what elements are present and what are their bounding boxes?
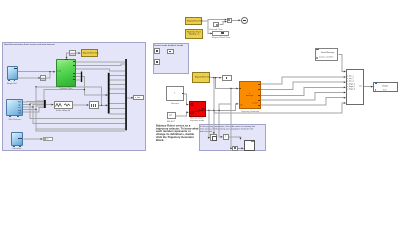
demux bar bbox=[108, 73, 110, 114]
block: yellow annotation elapsed real time top bbox=[185, 17, 202, 26]
wire branch down a bbox=[30, 105, 125, 119]
block: bottom B bbox=[223, 134, 229, 140]
wire demux to mux t8 bbox=[110, 113, 125, 115]
wire yellow3 branch down to bottom panel bbox=[213, 78, 215, 135]
block: sensor subsystem box bbox=[166, 86, 184, 101]
block: chatter scope bbox=[373, 82, 398, 93]
wire demux to mux t1 bbox=[110, 74, 125, 76]
block: bottom A bbox=[210, 134, 217, 141]
wire sum to scope circle bbox=[232, 19, 241, 21]
block: send message bbox=[315, 48, 338, 61]
wire trajectory out2 bbox=[261, 82, 346, 89]
block: cyan source 1 bbox=[7, 66, 18, 80]
block: cyan source 2 bbox=[6, 99, 23, 116]
wire demux to mux t6 bbox=[110, 103, 125, 105]
wire tf mux to filter bbox=[46, 104, 54, 106]
block: cyan source 3 bbox=[11, 132, 23, 145]
wire sensor box to switch bbox=[184, 94, 189, 105]
block: yellow elapsed real time (mid) bbox=[192, 72, 211, 83]
wire cyan1 to rate block bbox=[18, 77, 41, 79]
label: bottom panel note text bbox=[200, 125, 255, 133]
wire cyan2 out4 to tf mux bbox=[23, 106, 44, 110]
wire trajectory out4 bbox=[261, 93, 346, 101]
label: left panel title bbox=[4, 43, 55, 46]
arrowheads bbox=[53, 71, 55, 73]
wire drop to block C bbox=[231, 89, 232, 149]
wire big mux out to x_hat tag bbox=[127, 97, 133, 99]
block: display elapsed real time bbox=[212, 31, 229, 35]
block: scope circle bbox=[241, 17, 248, 24]
wire yellow3 to tag1 bbox=[211, 77, 222, 79]
block: x_hat tag bbox=[133, 95, 144, 101]
panel: bottom trajectory note area bbox=[199, 124, 266, 151]
wire clock small to sum bbox=[219, 22, 226, 25]
wire trajectory out1 bbox=[261, 77, 346, 84]
wire green out5 to small mux bbox=[76, 79, 81, 81]
wire discrete block to demux bar bbox=[99, 104, 108, 106]
small mux near green bbox=[81, 72, 82, 83]
block: manual switch red bbox=[189, 101, 206, 117]
label: middle panel title bbox=[154, 44, 183, 47]
wire yellow1 to branch bbox=[202, 20, 227, 21]
block: discrete filter bbox=[54, 101, 74, 109]
block: rate transition small bbox=[40, 75, 45, 81]
panel: position mode feedback handle area bbox=[153, 43, 189, 74]
wire green out1 to big mux bbox=[76, 61, 126, 63]
wires svg layer bbox=[0, 0, 400, 167]
wire trajectory out5 bbox=[261, 98, 346, 105]
block: green kalman subsystem bbox=[56, 59, 76, 87]
block: bottom model D bbox=[244, 140, 256, 151]
wire cyan2 out5 to tf mux bbox=[23, 108, 44, 113]
wire trajectory out3 bbox=[261, 87, 346, 95]
label: balance robot annotation bbox=[156, 125, 198, 142]
wire drop from tag feed to trajectory input bbox=[216, 78, 239, 89]
wire cyan3 to goto tag bbox=[23, 138, 42, 140]
wire drop b to block B bbox=[219, 110, 222, 137]
wire cyan1 to green input bbox=[18, 71, 56, 73]
wire branch down b bbox=[33, 107, 125, 124]
wire green out3 to small mux bbox=[76, 73, 81, 75]
wire cyan2 out2 to tf mux bbox=[23, 103, 44, 105]
wire filter to discrete block bbox=[73, 104, 89, 106]
wire rate block up to green input bbox=[46, 72, 50, 78]
tf input mux bbox=[44, 100, 46, 108]
wire green out2 to big mux bbox=[76, 64, 126, 66]
wire feedback upper bbox=[36, 87, 102, 106]
wire riser to block C bbox=[219, 104, 231, 110]
wire branch down to display bbox=[208, 21, 212, 33]
wire feedback lower bbox=[44, 90, 84, 100]
wire drop a to block A bbox=[209, 110, 210, 137]
wire branch down c bbox=[36, 110, 125, 129]
block: p2 small block 3 bbox=[154, 59, 160, 65]
block: goto tag encoder bbox=[43, 137, 53, 141]
wire demux to mux t5 bbox=[110, 92, 125, 94]
block: constant small bbox=[167, 112, 176, 119]
wire demux to mux t4 bbox=[110, 88, 125, 90]
block: bottom C bbox=[232, 146, 238, 151]
wire feedback loop bottom bbox=[36, 87, 125, 131]
block: sum bbox=[227, 18, 232, 23]
wire blockB to model bbox=[229, 137, 241, 140]
block: small clock bbox=[213, 22, 219, 27]
wire constant to switch bbox=[176, 112, 188, 116]
wire cyan2 out3 to tf mux bbox=[23, 105, 44, 108]
wire receiver out to chatter bbox=[364, 86, 373, 88]
panel: state reconstruction subsystem area bbox=[2, 42, 146, 151]
mux bar big bbox=[125, 59, 127, 130]
block: tag1 white bbox=[222, 75, 232, 81]
wire small mux down to demux bar bbox=[82, 77, 107, 96]
block: clock 3d bbox=[69, 50, 75, 56]
block: orange trajectory generator bbox=[239, 81, 262, 109]
wire demux to mux t3 bbox=[110, 83, 125, 85]
wire clock3d down into green top bbox=[67, 53, 70, 59]
junction dots bbox=[49, 71, 50, 72]
wire green out4 to small mux bbox=[76, 76, 81, 78]
wire send message down to receiver port1 bbox=[338, 54, 345, 71]
block: p2 small block 2 bbox=[167, 49, 174, 54]
wire green out2b to big mux bbox=[76, 69, 126, 71]
block: discrete gain bbox=[89, 101, 99, 109]
block: yellow annotation real time pacer bbox=[185, 29, 202, 39]
wire blockC to model bbox=[238, 147, 244, 149]
wire demux to mux t7 bbox=[110, 108, 125, 110]
block: message receiver tall bbox=[346, 69, 364, 105]
wire demux to mux t2 bbox=[110, 79, 125, 81]
block: yellow elapsed real time (left) bbox=[81, 49, 99, 57]
wire cyan2 out1 to tf mux bbox=[23, 101, 44, 104]
wire long bottom to receiver port7 bbox=[214, 103, 345, 113]
wire switch out bbox=[206, 104, 239, 111]
wire clock3d to yellow elapsed bbox=[76, 52, 81, 54]
block: p2 small block 1 bbox=[154, 48, 160, 54]
